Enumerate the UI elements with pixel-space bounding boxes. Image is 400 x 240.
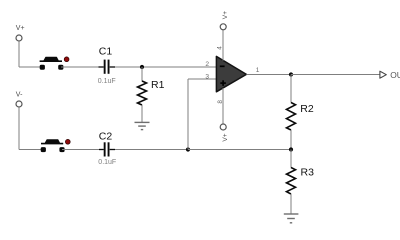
terminal V+ input	[16, 25, 25, 41]
resistor R2	[287, 75, 296, 150]
svg-text:V+: V+	[16, 25, 25, 32]
output port symbol	[380, 71, 386, 78]
wire C2 to node B	[115, 149, 188, 151]
pushbutton S2	[41, 139, 71, 152]
svg-text:R3: R3	[301, 166, 315, 178]
pushbutton S1	[40, 57, 69, 70]
svg-text:C1: C1	[99, 46, 113, 58]
svg-text:V-: V-	[16, 91, 23, 98]
svg-text:2: 2	[205, 61, 209, 68]
junction node A (C1/R1)	[140, 65, 144, 69]
svg-text:R1: R1	[151, 79, 165, 91]
wire op-amp bottom power	[222, 88, 224, 124]
wire C1 to op-amp pin 2	[115, 66, 217, 68]
svg-text:R2: R2	[300, 103, 314, 115]
ground below R3	[284, 214, 299, 223]
wire node B to node C	[188, 149, 291, 151]
wire V- terminal down	[18, 107, 20, 149]
terminal V+ op-amp top	[220, 11, 229, 30]
svg-text:V+: V+	[222, 133, 229, 141]
terminal V+ op-amp bottom	[220, 124, 229, 142]
resistor R3	[287, 150, 296, 215]
wire op-amp top power	[222, 30, 224, 61]
svg-text:C2: C2	[99, 131, 113, 143]
wire node B up	[187, 79, 189, 150]
svg-text:8: 8	[217, 100, 224, 104]
ground below R1	[135, 122, 150, 129]
svg-text:3: 3	[205, 73, 209, 80]
svg-text:OUT: OUT	[390, 70, 400, 80]
wire S2 to C2	[62, 149, 104, 151]
svg-text:4: 4	[217, 46, 224, 50]
wire node C to output port	[291, 74, 380, 76]
op-amp U1	[216, 56, 246, 91]
svg-text:0.1uF: 0.1uF	[98, 78, 116, 85]
wire V- to switch S2	[19, 149, 43, 151]
capacitor C1	[99, 60, 116, 74]
junction node B (pin3 tap)	[186, 147, 190, 151]
wire S1 to C1	[61, 66, 104, 68]
wire V+ to switch S1	[19, 66, 42, 68]
resistor R1	[138, 67, 147, 122]
junction node C (output/R2)	[289, 72, 293, 76]
svg-text:V+: V+	[222, 11, 229, 19]
svg-text:1: 1	[256, 67, 260, 74]
junction node D (R2/R3)	[289, 147, 293, 151]
wire to op-amp pin 3	[188, 78, 217, 80]
terminal V- input	[16, 91, 23, 107]
wire op-amp output to node C	[246, 74, 291, 76]
wire V+ terminal down	[18, 41, 20, 67]
capacitor C2	[99, 142, 115, 156]
svg-text:0.1uF: 0.1uF	[98, 159, 116, 166]
